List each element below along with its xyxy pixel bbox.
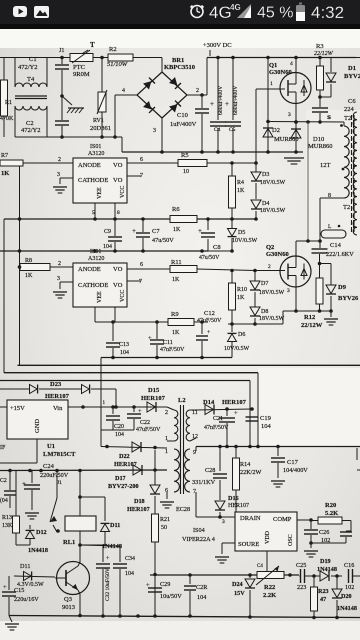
wire C6 top [319, 97, 321, 107]
svg-text:R14: R14 [240, 461, 250, 468]
capacitor C23 [4, 491, 16, 495]
diode D11 [24, 572, 32, 581]
node D17 line junctions [8, 468, 157, 472]
wire Q1 gate [256, 88, 285, 90]
svg-text:7: 7 [139, 279, 142, 285]
wire L2 upper left bottom [167, 440, 174, 442]
wire C11 top [156, 322, 158, 339]
wire R13 to D12 [16, 544, 30, 546]
node D22 nodes [105, 445, 157, 450]
svg-text:1K: 1K [172, 330, 180, 336]
label Q3 [64, 596, 72, 603]
label R23 [318, 588, 329, 595]
label C25 [296, 562, 306, 569]
label C29 plus [146, 582, 150, 589]
node C25 out [312, 574, 316, 578]
wire L2 upper left top [167, 407, 174, 410]
wire rail C [4, 372, 258, 374]
label R21 value [161, 525, 167, 531]
svg-text:HER107: HER107 [228, 503, 249, 509]
svg-text:224: 224 [344, 106, 355, 113]
label IS01 VCC [120, 186, 126, 198]
wire D6 top [231, 324, 233, 332]
svg-text:J1: J1 [57, 480, 62, 486]
wire C12 bottom [201, 341, 203, 358]
diode D15 [147, 402, 156, 412]
capacitor C2 [55, 121, 69, 125]
wire D20 bottom [336, 600, 338, 618]
status bar icons [13, 3, 344, 23]
label IS02 VO2 [113, 282, 123, 289]
wire switch bottom stub [53, 525, 57, 532]
svg-text:22/12W: 22/12W [314, 51, 334, 57]
wire D23 line [0, 388, 29, 390]
label D17 part [108, 483, 139, 490]
node bottom rail junctions [78, 614, 339, 620]
label Ct arrow [257, 564, 263, 569]
label RV1 value [90, 125, 111, 132]
varistor RV1 stroke [97, 90, 107, 114]
wire C24 branch [9, 471, 11, 491]
wire R1 bottom [3, 116, 5, 137]
diode D20 [332, 589, 342, 598]
transformer T4 bottom winding [15, 106, 47, 110]
node T2 tap [342, 168, 345, 171]
svg-text:11: 11 [192, 410, 198, 416]
wire R13 bottom [15, 533, 17, 545]
wire R21 bottom [154, 542, 156, 616]
label C24 plus [22, 480, 26, 488]
label Q2 [266, 244, 274, 251]
wire D21 top link [80, 496, 105, 498]
node 446 junctions [218, 445, 280, 449]
node Q1 source [294, 120, 298, 124]
label Q1 [269, 62, 277, 69]
capacitor C19 [246, 417, 259, 421]
wire C13 bottom [112, 348, 114, 358]
svg-text:D14: D14 [203, 399, 215, 406]
wire D2 column [267, 58, 269, 153]
wire C22 top [133, 407, 135, 412]
label bridge pin 2 [196, 88, 199, 94]
svg-text:G30N60: G30N60 [266, 251, 289, 258]
wire AC input left [0, 57, 15, 59]
label C11 value [160, 347, 185, 353]
wire R10 top [231, 271, 233, 284]
zener D24 [245, 579, 255, 588]
label R4 value [237, 188, 245, 194]
svg-text:C5: C5 [229, 127, 236, 133]
relay RL1 box [65, 516, 96, 531]
wire D19 leads [314, 575, 320, 577]
node D19 out [335, 574, 339, 578]
ground negative rail [284, 158, 304, 164]
svg-text:1N4148: 1N4148 [317, 566, 337, 573]
svg-text:5: 5 [92, 210, 95, 216]
node vin junctions [81, 405, 136, 409]
svg-text:DRAIN: DRAIN [240, 515, 261, 522]
svg-text:+: + [210, 100, 214, 108]
svg-text:HER107: HER107 [127, 506, 150, 513]
svg-text:(04: (04 [0, 497, 8, 504]
node bridge plus [200, 93, 204, 97]
label IS02 VCC [120, 290, 126, 302]
svg-text:3: 3 [153, 128, 156, 134]
label L2 [178, 397, 186, 404]
svg-text:C24: C24 [43, 463, 55, 470]
resistor R3 [317, 66, 324, 90]
inductor L2 upper right [186, 410, 190, 441]
svg-text:VO: VO [113, 282, 123, 289]
wire IS02 pin3 [60, 281, 73, 283]
svg-text:8: 8 [117, 210, 120, 216]
svg-text:+: + [234, 410, 238, 417]
wire T arrow line [80, 50, 88, 55]
svg-text:51/10W: 51/10W [107, 61, 128, 68]
label C5 value [233, 85, 239, 115]
label IF fragment [0, 445, 6, 451]
svg-text:104: 104 [120, 350, 129, 356]
resistor R21 [152, 514, 159, 542]
resistor R8 [20, 264, 50, 271]
svg-text:IF: IF [0, 445, 6, 451]
svg-text:104: 104 [115, 432, 124, 438]
wire gnd stub bottom [9, 616, 12, 623]
label D4 [262, 201, 269, 207]
wire rail D [0, 380, 250, 382]
capacitor C25 [301, 569, 305, 583]
wire IS02 pin5 down [94, 307, 96, 322]
svg-text:SOURE: SOURE [238, 541, 259, 548]
svg-text:D12: D12 [36, 529, 47, 536]
node R3 bottom [318, 95, 322, 99]
wire COMP out [297, 519, 311, 521]
wire comp bottom link [311, 542, 346, 544]
svg-text:2: 2 [165, 410, 168, 416]
diode D21 [101, 523, 110, 531]
resistor R13 [13, 516, 20, 533]
thermistor PTC [70, 54, 93, 62]
svg-text:C2: C2 [26, 120, 34, 127]
transformer T4 top winding [15, 83, 47, 87]
svg-text:47u/50V: 47u/50V [199, 255, 220, 261]
capacitor C7 plus plate [136, 233, 150, 237]
svg-text:222/1.6KV: 222/1.6KV [326, 251, 354, 258]
transistor Q1 [280, 73, 311, 104]
svg-text:3: 3 [57, 172, 60, 178]
wire C21 bottom [226, 423, 228, 447]
label C19 [260, 415, 271, 422]
label IS01 [90, 144, 101, 150]
label D6 value [224, 346, 250, 352]
svg-text:BYV26: BYV26 [344, 73, 360, 80]
svg-text:18V/0.5W: 18V/0.5W [259, 316, 285, 322]
wire L2 ext [208, 250, 233, 252]
svg-text:R11: R11 [171, 259, 182, 266]
wire R10 bottom [231, 310, 233, 324]
diode D9 [326, 285, 336, 294]
resistor R6 [170, 216, 197, 223]
label U1 GND [34, 419, 41, 433]
svg-text:10: 10 [183, 169, 189, 175]
wire D23 out [91, 388, 116, 390]
wire T4 core bottom [15, 98, 47, 100]
label C28 value [192, 479, 216, 486]
diode BR1 top-right [169, 77, 181, 89]
transistor Q3 internals [55, 566, 78, 590]
svg-text:D16: D16 [228, 495, 239, 502]
svg-text:C26: C26 [319, 529, 329, 536]
wire T4 right lead top [46, 58, 48, 88]
label R11 [171, 259, 182, 266]
wire D24 bottom [249, 590, 251, 617]
svg-text:+: + [3, 584, 7, 591]
wire C15 col [8, 576, 10, 590]
label C15 value [14, 596, 39, 603]
ground COMP [304, 551, 318, 557]
svg-text:ANODE: ANODE [78, 266, 101, 273]
svg-text:CATHODE: CATHODE [78, 282, 108, 289]
label RV1 [93, 118, 104, 124]
wire mid rail L1 [4, 218, 256, 220]
node negative rail junctions [160, 150, 298, 154]
node switch out [56, 529, 60, 533]
label C24 [43, 463, 55, 470]
capacitor C32 [96, 564, 110, 568]
label L2 pin12 [192, 434, 198, 440]
bridge rectifier BR1 outline [137, 72, 187, 118]
label C4 [214, 127, 221, 133]
label C19 value [261, 423, 272, 430]
ground IS04 source [215, 557, 229, 563]
wire C1-C2 link [61, 70, 63, 120]
op-amp IS02 box [73, 263, 127, 307]
wire D21 top [104, 497, 106, 521]
wire C27 bottom [345, 537, 347, 543]
svg-text:47u/50V: 47u/50V [152, 237, 174, 244]
node Q2 source rail junctions [318, 309, 333, 313]
node Q2 source [294, 309, 298, 313]
wire D3 top lead [255, 170, 257, 172]
node COMP node [309, 518, 313, 522]
svg-text:VEE: VEE [97, 187, 103, 199]
wire Y-cap earth stub [62, 96, 72, 105]
wire C23 down [9, 496, 11, 508]
svg-text:R8: R8 [25, 258, 32, 264]
svg-text:472/Y2: 472/Y2 [21, 127, 41, 134]
svg-text:T4: T4 [27, 76, 35, 83]
label D10 part [308, 143, 333, 150]
svg-text:20D361: 20D361 [90, 125, 111, 132]
wire C34 col [119, 546, 121, 562]
wire R14 bottom [235, 490, 237, 512]
svg-text:R12: R12 [304, 314, 315, 321]
label Q1 pin3 [288, 112, 291, 118]
label C23 [0, 478, 7, 484]
transformer T2 core [352, 115, 355, 232]
node relay top tap [78, 495, 82, 499]
wire D19 out [331, 575, 342, 577]
svg-text:C2R: C2R [196, 584, 208, 591]
svg-text:R7: R7 [1, 153, 8, 159]
wire T4 left lead bottom [14, 106, 16, 137]
svg-text:C22: C22 [140, 420, 150, 426]
wire vdd rail [150, 574, 299, 576]
wire D18 column top [154, 450, 156, 485]
label C17 value [283, 467, 308, 474]
label R2 [109, 46, 117, 53]
label D7 [261, 281, 268, 287]
wire output rail 446 [196, 446, 360, 448]
wire C2 bottom lead [61, 126, 63, 137]
label IS02 pin6 [140, 262, 143, 268]
svg-text:C1: C1 [29, 56, 37, 63]
svg-text:R23: R23 [318, 588, 329, 595]
wire VDD down [266, 551, 268, 575]
label D16 part [228, 503, 249, 509]
svg-text:C20: C20 [114, 424, 124, 430]
svg-text:EC28: EC28 [176, 506, 190, 513]
wire drain wire [196, 516, 235, 518]
label D2 [272, 127, 280, 134]
svg-text:Q2: Q2 [266, 244, 274, 251]
svg-text:3: 3 [57, 276, 60, 282]
wire bridge plus out [187, 94, 207, 96]
capacitor C17 [271, 458, 285, 462]
wire C32 down [102, 569, 104, 616]
svg-text:+: + [146, 582, 150, 589]
label IS01 CATHODE [78, 177, 108, 184]
diode D14 [205, 405, 214, 415]
wire R2 to bridge top [133, 57, 162, 59]
label C32 rot [105, 568, 111, 601]
diode D2 [263, 128, 273, 137]
label C5 [229, 127, 236, 133]
svg-text:47nF/50V: 47nF/50V [204, 425, 229, 431]
transistor Q1 internals [288, 73, 307, 103]
diode D13 [30, 385, 38, 394]
svg-text:331/1KV: 331/1KV [192, 479, 216, 486]
svg-text:GND: GND [34, 419, 41, 433]
label D8 [261, 309, 268, 315]
wire relay bottom [79, 531, 81, 562]
varistor RV1 [98, 92, 106, 112]
connector right edge marks [354, 120, 360, 470]
label R9 value [172, 330, 180, 336]
label C34 [125, 556, 135, 562]
svg-text:C7: C7 [152, 228, 160, 235]
label D9 [338, 284, 347, 291]
earth ground Y-caps [67, 108, 84, 113]
label D15 part [141, 395, 166, 402]
label T2 top [344, 115, 351, 122]
svg-text:T: T [90, 41, 95, 49]
wire R3 top [319, 58, 321, 67]
label R14 [240, 461, 250, 468]
label C12 value [197, 318, 222, 324]
wire C22 bottom [133, 419, 135, 430]
wire C7 bottom [142, 238, 144, 251]
wire bridge bottom lead [161, 118, 163, 152]
label Q1 pin1 [270, 81, 273, 87]
node L2 junctions [18, 249, 204, 253]
svg-text:R9: R9 [171, 311, 179, 318]
label C8 [213, 244, 221, 251]
label BR1 part [164, 64, 195, 71]
wire C6 bottom [319, 113, 321, 122]
wire C27 top [346, 530, 351, 532]
svg-text:220u/16V: 220u/16V [14, 596, 39, 603]
wire Q2 gate [255, 270, 285, 272]
label R20 [325, 502, 336, 509]
label IS04 VDD [265, 530, 271, 544]
svg-text:Q3: Q3 [64, 596, 72, 603]
label T2 S [327, 115, 330, 121]
svg-text:D4: D4 [262, 201, 269, 207]
label D14 part [222, 399, 247, 406]
label T2 bottom [343, 204, 350, 211]
node J1 junction [60, 56, 64, 60]
zener D7 [250, 281, 260, 290]
svg-text:R2: R2 [109, 46, 117, 53]
label D12 [36, 529, 47, 536]
wire RV1 bottom [101, 112, 103, 137]
svg-text:15V: 15V [234, 590, 245, 597]
svg-text:MUR860: MUR860 [308, 143, 333, 150]
wire U1 out [0, 406, 7, 408]
label J1 [59, 48, 64, 54]
label R1 value 470K [0, 116, 14, 122]
label IS01 VEE [97, 187, 103, 199]
label R21 [160, 517, 170, 523]
label IS01 VO2 [113, 177, 123, 184]
label C6 value [344, 106, 355, 113]
switch contact [50, 498, 57, 522]
svg-text:104/400V: 104/400V [283, 467, 308, 474]
svg-text:+: + [138, 408, 142, 415]
wire C15 down [8, 597, 10, 616]
svg-text:D23: D23 [50, 381, 62, 388]
svg-text:104: 104 [261, 423, 272, 430]
wire D6 bottom [231, 342, 233, 358]
svg-text:VO: VO [113, 177, 123, 184]
wire C26 branch [310, 521, 312, 530]
label R14 value [240, 469, 261, 476]
transistor Q3 [57, 562, 90, 595]
ground IS01 [53, 187, 67, 193]
svg-text:C4: C4 [214, 127, 221, 133]
resistor R2 [108, 54, 133, 61]
label C13 value [120, 350, 129, 356]
wire D3-D4 [255, 183, 257, 199]
wire D1 bottom [330, 84, 332, 97]
svg-text:R5: R5 [181, 152, 189, 159]
label R6 [172, 206, 180, 213]
svg-text:T2: T2 [343, 204, 350, 211]
label J1b [57, 480, 62, 486]
ground IS02 [53, 292, 67, 298]
wire D20 top [336, 576, 338, 589]
diode D10 [291, 129, 301, 138]
wire U1 gnd left [0, 462, 37, 464]
node R8 left [18, 265, 22, 269]
label Q1 pin4 [290, 61, 293, 67]
svg-text:C16: C16 [344, 562, 354, 569]
wire Q3 collector [78, 562, 80, 566]
label L2 pin2 [165, 410, 168, 416]
wire C5 lead [232, 58, 234, 121]
svg-text:47uF/50V: 47uF/50V [197, 318, 222, 324]
